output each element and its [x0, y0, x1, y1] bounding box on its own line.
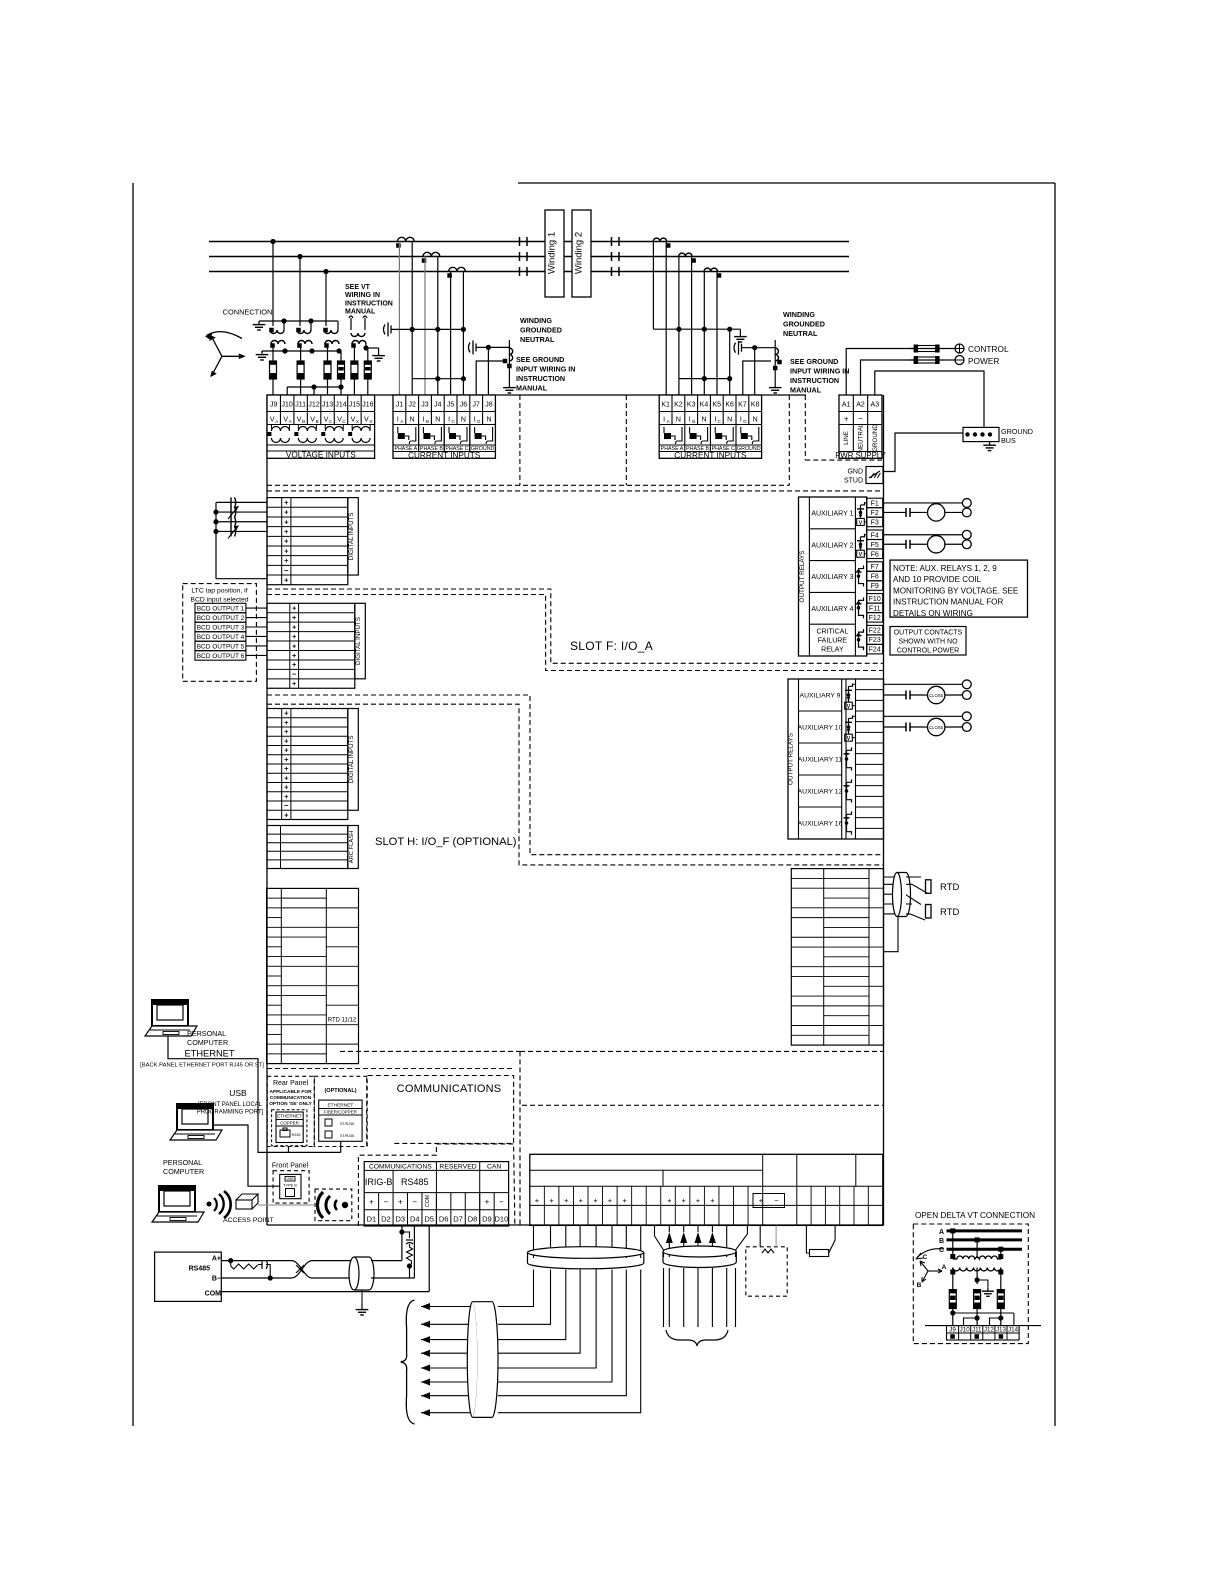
svg-text:−: − [499, 1198, 504, 1207]
F output relays block [799, 497, 867, 656]
svg-text:J10: J10 [960, 1327, 971, 1334]
CT W2 phase B [679, 253, 696, 263]
wire W2 neutral tie lower [679, 376, 732, 381]
svg-text:AUXILIARY 10: AUXILIARY 10 [798, 725, 843, 732]
access point [223, 1194, 315, 1224]
svg-text:−: − [412, 1198, 417, 1207]
svg-text:A: A [275, 419, 278, 424]
wire W1 CT secondary drops [399, 242, 463, 396]
svg-text:V: V [283, 417, 288, 424]
svg-text:F12: F12 [869, 615, 881, 622]
svg-text:+: + [369, 1198, 374, 1207]
svg-text:COPPER: COPPER [280, 1120, 299, 1125]
svg-text:RESERVED: RESERVED [439, 1163, 476, 1170]
svg-text:G: G [743, 419, 747, 424]
slot bottom dashed boundary [267, 1051, 884, 1226]
svg-text:F8: F8 [871, 574, 879, 581]
personal computer 1 [145, 1000, 228, 1047]
svg-text:J1: J1 [396, 402, 404, 409]
svg-text:+: + [292, 622, 297, 631]
svg-text:COMMUNICATIONS: COMMUNICATIONS [397, 1083, 502, 1095]
svg-text:D8: D8 [468, 1215, 478, 1224]
svg-text:BCD input selected: BCD input selected [190, 597, 248, 604]
Winding 1 box [545, 210, 564, 297]
svg-text:INSTRUCTION: INSTRUCTION [516, 374, 565, 383]
svg-text:+: + [292, 660, 297, 669]
svg-text:AUXILIARY 11: AUXILIARY 11 [798, 757, 842, 764]
text usb port [197, 1088, 264, 1116]
svg-text:ETHERNET: ETHERNET [277, 1114, 302, 1119]
svg-text:CONNECTION: CONNECTION [223, 308, 273, 317]
svg-text:INPUT WIRING IN: INPUT WIRING IN [516, 365, 576, 374]
svg-text:J2: J2 [408, 402, 416, 409]
svg-text:+: + [292, 613, 297, 622]
svg-text:K8: K8 [751, 402, 760, 409]
svg-text:K4: K4 [700, 402, 709, 409]
svg-text:AUXILIARY 2: AUXILIARY 2 [811, 542, 853, 549]
svg-text:N: N [435, 417, 440, 424]
fuse control power negative [910, 356, 944, 364]
svg-text:CURRENT INPUTS: CURRENT INPUTS [408, 451, 481, 460]
svg-text:MANUAL: MANUAL [345, 309, 376, 316]
text SEE VT WIRING [345, 284, 393, 316]
svg-text:DIGITAL INPUTS: DIGITAL INPUTS [355, 617, 362, 665]
svg-text:+: + [485, 1198, 490, 1207]
svg-text:WIRING IN: WIRING IN [345, 292, 380, 299]
svg-text:APPLICABLE FOR: APPLICABLE FOR [269, 1089, 312, 1095]
RS485 to D terminals [399, 1226, 429, 1292]
aux relay 9 output wires [884, 680, 972, 704]
middle group brace [666, 1330, 728, 1346]
svg-text:MANUAL: MANUAL [516, 384, 548, 393]
fuse VT neutral [338, 351, 345, 387]
svg-text:I: I [689, 417, 691, 424]
W2 ground CT [734, 340, 782, 395]
VT primary neutral bar and ground [253, 318, 338, 330]
svg-text:ST/RJ45: ST/RJ45 [340, 1134, 354, 1138]
fuse VT A [270, 344, 277, 395]
svg-text:PERSONAL: PERSONAL [187, 1029, 226, 1038]
svg-text:J8: J8 [485, 402, 493, 409]
svg-text:J13: J13 [996, 1327, 1007, 1334]
CT W2 phase A [653, 238, 670, 248]
svg-text:AUXILIARY 4: AUXILIARY 4 [811, 606, 853, 613]
svg-text:F9: F9 [871, 583, 879, 590]
svg-text:POWER: POWER [968, 356, 999, 366]
svg-text:V: V [859, 520, 863, 526]
svg-text:A3: A3 [871, 402, 880, 409]
RS485 wires twisted pair [221, 1258, 429, 1292]
svg-text:BCD OUTPUT 5: BCD OUTPUT 5 [197, 644, 245, 651]
svg-text:OUTPUT RELAYS: OUTPUT RELAYS [799, 551, 806, 603]
wire W2 CT secondary drops [653, 242, 717, 396]
fuse VT B [297, 344, 304, 395]
svg-text:+: + [292, 632, 297, 641]
svg-text:A1: A1 [842, 402, 851, 409]
svg-text:K3: K3 [687, 402, 696, 409]
svg-text:D2: D2 [381, 1215, 391, 1224]
svg-text:+: + [284, 575, 289, 584]
relay contact glyphs F block [856, 502, 868, 650]
svg-text:F2: F2 [871, 510, 879, 517]
svg-text:A: A [289, 419, 292, 424]
svg-text:+: + [284, 755, 289, 764]
svg-text:+: + [682, 1196, 687, 1205]
svg-text:+: + [608, 1196, 613, 1205]
svg-text:LTC tap position, if: LTC tap position, if [191, 588, 247, 595]
wire W1 neutral tie lower [412, 376, 466, 381]
svg-text:N: N [727, 417, 732, 424]
contact input wires block 1 [213, 497, 267, 578]
svg-text:J10: J10 [282, 402, 293, 409]
svg-text:−: − [284, 566, 289, 575]
svg-text:D3: D3 [396, 1215, 406, 1224]
svg-text:J14: J14 [335, 402, 346, 409]
svg-text:OUTPUT CONTACTS: OUTPUT CONTACTS [894, 630, 963, 637]
svg-text:F6: F6 [871, 551, 879, 558]
svg-text:MANUAL: MANUAL [790, 386, 822, 395]
CT W1 phase B [422, 252, 440, 262]
svg-text:CONTROL POWER: CONTROL POWER [897, 648, 959, 655]
svg-text:OPEN DELTA VT CONNECTION: OPEN DELTA VT CONNECTION [915, 1211, 1035, 1220]
chassis outline [267, 395, 884, 1225]
svg-text:ACCESS POINT: ACCESS POINT [223, 1217, 274, 1224]
open delta bus lines [939, 1229, 1022, 1254]
fuse VT C [324, 344, 331, 395]
svg-text:CONTROL: CONTROL [968, 344, 1009, 354]
svg-text:+: + [284, 773, 289, 782]
svg-text:WINDING: WINDING [783, 310, 815, 319]
arc flash block [267, 826, 358, 869]
svg-text:B: B [917, 1282, 922, 1289]
svg-text:TYPE B: TYPE B [283, 1184, 297, 1188]
VT phase B secondary [297, 341, 312, 348]
svg-text:V: V [351, 417, 356, 424]
svg-text:RTD 11/12: RTD 11/12 [328, 1018, 357, 1024]
svg-text:ARC FLASH: ARC FLASH [349, 831, 355, 864]
svg-text:IRIG-B: IRIG-B [365, 1177, 393, 1187]
svg-text:+: + [284, 792, 289, 801]
RTD field cable sheath tube vertical [467, 1302, 498, 1418]
svg-text:B: B [316, 419, 319, 424]
control power terminals [943, 344, 1009, 366]
svg-text:I: I [423, 417, 425, 424]
svg-text:CLOSE: CLOSE [929, 725, 943, 730]
fuse VT aux neutral [364, 348, 371, 395]
svg-text:I: I [474, 417, 476, 424]
svg-text:FAILURE: FAILURE [818, 638, 848, 645]
VT aux secondary ground wire [363, 344, 385, 361]
svg-text:+: + [292, 641, 297, 650]
digital inputs block 1 [267, 498, 358, 585]
svg-text:DIGITAL INPUTS: DIGITAL INPUTS [348, 735, 355, 783]
RS485 cable shield [349, 1257, 374, 1315]
svg-text:RS485: RS485 [401, 1177, 429, 1187]
RTD cable and sensors [884, 873, 928, 952]
svg-text:+: + [284, 783, 289, 792]
svg-text:V: V [297, 417, 302, 424]
wire A3 to ground bus [875, 371, 984, 427]
wireless waves to access point [207, 1191, 231, 1218]
svg-text:−: − [292, 670, 297, 679]
svg-text:J6: J6 [460, 402, 468, 409]
svg-text:+: + [284, 556, 289, 565]
svg-text:BUS: BUS [1001, 436, 1016, 445]
svg-text:AUXILIARY 12: AUXILIARY 12 [798, 789, 843, 796]
svg-text:RS485: RS485 [189, 1266, 211, 1273]
text SLOT F label [570, 639, 653, 653]
fuse control power positive [910, 345, 944, 353]
svg-text:J15: J15 [349, 402, 360, 409]
svg-text:F22: F22 [869, 628, 881, 635]
svg-text:GROUND: GROUND [1001, 427, 1033, 436]
svg-text:USB: USB [229, 1088, 247, 1098]
svg-text:B: B [939, 1238, 944, 1245]
svg-text:C: C [923, 1254, 928, 1261]
svg-text:GROUNDED: GROUNDED [783, 320, 825, 329]
svg-text:F10: F10 [869, 596, 881, 603]
svg-text:+: + [284, 718, 289, 727]
VT phase B primary [296, 321, 311, 334]
svg-text:+: + [292, 679, 297, 688]
slot boundary dashes top [267, 395, 884, 491]
svg-text:A: A [667, 419, 670, 424]
svg-text:F23: F23 [869, 637, 881, 644]
aux 9-16 output relays block [788, 679, 884, 839]
svg-text:INSTRUCTION: INSTRUCTION [345, 300, 393, 307]
svg-text:PERSONAL: PERSONAL [163, 1158, 202, 1167]
svg-text:ETHERNET: ETHERNET [327, 1102, 353, 1108]
svg-text:V: V [364, 417, 369, 424]
svg-text:SEE VT: SEE VT [345, 284, 371, 291]
svg-text:BCD OUTPUT 1: BCD OUTPUT 1 [197, 606, 245, 613]
F terminal boxes F1-F24 [867, 498, 883, 654]
phasor CONNECTION symbol [205, 308, 272, 378]
open delta windings [950, 1228, 1003, 1296]
svg-text:N: N [461, 417, 466, 424]
svg-text:COMMUNICATION: COMMUNICATION [270, 1095, 312, 1101]
svg-text:SEE GROUND: SEE GROUND [516, 355, 564, 364]
svg-text:A: A [939, 1229, 944, 1236]
svg-text:D6: D6 [439, 1215, 449, 1224]
svg-text:N: N [701, 417, 706, 424]
svg-text:J11: J11 [972, 1327, 982, 1334]
fuse VT aux [351, 344, 358, 395]
rear ethernet copper port [272, 1110, 307, 1146]
svg-text:J12: J12 [984, 1327, 995, 1334]
svg-text:I: I [663, 417, 665, 424]
svg-text:K7: K7 [738, 402, 747, 409]
rear panel dashed box [267, 1076, 314, 1146]
bottom terminal strip [530, 1154, 883, 1225]
svg-text:NEUTRAL: NEUTRAL [783, 329, 818, 338]
svg-text:CLOSE: CLOSE [929, 693, 943, 698]
svg-text:K6: K6 [725, 402, 734, 409]
svg-text:AUXILIARY 16: AUXILIARY 16 [798, 821, 843, 828]
left group cable brace [401, 1300, 415, 1424]
svg-text:RTD: RTD [940, 882, 959, 893]
svg-text:+: + [696, 1196, 701, 1205]
D terminal dashed box [358, 1144, 515, 1226]
svg-text:−: − [384, 1198, 389, 1207]
svg-text:MONITORING BY VOLTAGE. SEE: MONITORING BY VOLTAGE. SEE [893, 586, 1019, 595]
svg-text:N: N [486, 417, 491, 424]
svg-text:D9: D9 [482, 1215, 492, 1224]
svg-text:+: + [284, 810, 289, 819]
svg-text:A+: A+ [212, 1256, 221, 1263]
svg-text:B−: B− [212, 1276, 221, 1283]
svg-text:+: + [710, 1196, 715, 1205]
svg-text:+: + [284, 764, 289, 773]
svg-text:V: V [310, 417, 315, 424]
svg-text:GND: GND [847, 469, 863, 476]
VT phase C secondary [324, 341, 339, 348]
open delta phasor [916, 1249, 947, 1289]
open delta terminal wiring [950, 1309, 1014, 1326]
svg-text:+: + [284, 508, 289, 517]
text winding grounded neutral W1 [520, 316, 562, 344]
svg-text:VOLTAGE INPUTS: VOLTAGE INPUTS [286, 451, 356, 460]
left group cable sheath band horizontal [528, 1247, 644, 1270]
svg-text:J3: J3 [421, 402, 429, 409]
svg-text:K5: K5 [713, 402, 722, 409]
CT W1 phase A [396, 237, 414, 247]
svg-text:D5: D5 [424, 1215, 434, 1224]
svg-text:SLOT H: I/O_F (OPTIONAL): SLOT H: I/O_F (OPTIONAL) [375, 836, 517, 848]
control power wiring [846, 349, 914, 396]
svg-text:ST/RJ45: ST/RJ45 [340, 1122, 354, 1126]
text see ground input wiring W1 [516, 355, 576, 393]
RTD resistor 1 [926, 880, 960, 894]
relay contact glyphs aux 9-16 [844, 683, 856, 834]
personal computer 2 [163, 1104, 222, 1176]
svg-text:NOTE: AUX. RELAYS 1, 2, 9: NOTE: AUX. RELAYS 1, 2, 9 [893, 564, 997, 573]
svg-text:WINDING: WINDING [520, 316, 552, 325]
svg-text:DETAILS ON WIRING: DETAILS ON WIRING [893, 609, 973, 618]
current inputs terminal block J1-J8 [393, 395, 495, 460]
svg-text:F3: F3 [871, 520, 879, 527]
personal computer 3 [152, 1186, 204, 1222]
svg-text:K1: K1 [661, 402, 670, 409]
svg-text:I: I [397, 417, 399, 424]
digital inputs block 3 [267, 709, 358, 820]
svg-text:RJ45: RJ45 [292, 1133, 301, 1137]
svg-text:+: + [759, 1196, 764, 1205]
svg-text:CURRENT INPUTS: CURRENT INPUTS [674, 451, 747, 460]
svg-text:+: + [622, 1196, 627, 1205]
svg-text:BCD OUTPUT 6: BCD OUTPUT 6 [197, 653, 245, 660]
svg-text:J4: J4 [434, 402, 442, 409]
current inputs terminal block K1-K8 [419, 395, 762, 460]
svg-text:+: + [284, 736, 289, 745]
svg-text:J7: J7 [472, 402, 480, 409]
svg-text:AUXILIARY 9: AUXILIARY 9 [800, 693, 841, 700]
communications terminal block D1-D10 [364, 1162, 508, 1226]
svg-text:GROUND: GROUND [872, 424, 879, 452]
text ethernet port [140, 1049, 264, 1069]
svg-text:+: + [292, 604, 297, 613]
svg-text:K2: K2 [674, 402, 683, 409]
svg-text:F4: F4 [871, 532, 879, 539]
svg-text:+: + [535, 1196, 540, 1205]
svg-text:−: − [774, 1196, 779, 1205]
W1 ground CT [469, 340, 516, 395]
svg-text:AND 10 PROVIDE COIL: AND 10 PROVIDE COIL [893, 575, 982, 584]
svg-text:CRITICAL: CRITICAL [816, 629, 848, 636]
wire W2 neutral tie upper and ground [653, 327, 746, 395]
svg-text:Front Panel: Front Panel [272, 1163, 309, 1170]
svg-text:SHOWN WITH NO: SHOWN WITH NO [898, 639, 958, 646]
svg-text:COM: COM [425, 1195, 431, 1207]
breaker right [612, 237, 620, 276]
svg-text:INSTRUCTION: INSTRUCTION [790, 376, 839, 385]
svg-text:Rear Panel: Rear Panel [273, 1080, 308, 1087]
svg-text:I: I [714, 417, 716, 424]
svg-text:RELAY: RELAY [821, 647, 844, 654]
svg-text:BCD OUTPUT 4: BCD OUTPUT 4 [197, 634, 245, 641]
VT secondary neutral bar and ground [256, 348, 342, 360]
aux relay 2 output wires [883, 530, 971, 553]
svg-text:+: + [593, 1196, 598, 1205]
svg-text:J5: J5 [447, 402, 455, 409]
svg-text:+: + [292, 651, 297, 660]
svg-text:SEE GROUND: SEE GROUND [790, 357, 838, 366]
svg-text:F1: F1 [871, 501, 879, 508]
svg-text:CAN: CAN [487, 1163, 501, 1170]
RS485 device box [155, 1252, 222, 1301]
svg-text:V: V [270, 417, 275, 424]
svg-text:AUXILIARY 3: AUXILIARY 3 [811, 574, 853, 581]
svg-text:Winding 2: Winding 2 [574, 232, 585, 274]
svg-text:NEUTRAL: NEUTRAL [857, 423, 864, 452]
svg-text:ETHERNET: ETHERNET [184, 1049, 234, 1059]
svg-text:F11: F11 [869, 605, 881, 612]
front panel dashed box [272, 1163, 309, 1204]
slot H dashed boundary [267, 695, 884, 865]
aux 9-16 terminal cells [846, 679, 884, 839]
wire VT drops [270, 239, 328, 326]
svg-text:INPUT WIRING IN: INPUT WIRING IN [790, 367, 850, 376]
svg-text:+: + [844, 415, 849, 424]
svg-text:A2: A2 [856, 402, 865, 409]
svg-text:COMPUTER: COMPUTER [187, 1038, 228, 1047]
svg-text:BCD OUTPUT 2: BCD OUTPUT 2 [197, 615, 245, 622]
svg-text:−: − [284, 801, 289, 810]
svg-text:N: N [410, 417, 415, 424]
svg-text:V: V [847, 704, 851, 710]
svg-text:OPTION 'SE' ONLY: OPTION 'SE' ONLY [269, 1101, 312, 1107]
svg-text:GROUNDED: GROUNDED [520, 326, 562, 335]
communications dashed box [367, 1076, 514, 1147]
svg-text:COMMUNICATIONS: COMMUNICATIONS [369, 1163, 432, 1170]
svg-text:B: B [692, 419, 695, 424]
note box aux relays [890, 560, 1028, 618]
svg-text:+: + [284, 727, 289, 736]
svg-text:F24: F24 [869, 647, 881, 654]
digital inputs block 2 [267, 603, 365, 688]
VT phase A secondary [270, 341, 285, 348]
svg-text:RTD: RTD [940, 907, 959, 918]
svg-text:+: + [284, 527, 289, 536]
svg-text:J9: J9 [949, 1327, 956, 1334]
ground stud [844, 433, 963, 485]
page border frame [133, 183, 1055, 1426]
svg-text:+: + [667, 1196, 672, 1205]
svg-text:J11: J11 [295, 402, 306, 409]
svg-text:I: I [448, 417, 450, 424]
open delta terminal block [925, 1326, 1041, 1340]
svg-text:[BACK PANEL ETHERNET PORT RJ45: [BACK PANEL ETHERNET PORT RJ45 OR ST] [140, 1063, 264, 1069]
